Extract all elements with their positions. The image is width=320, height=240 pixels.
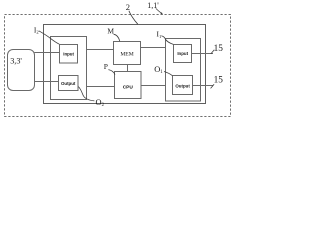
svg-text:O1: O1 — [154, 65, 163, 75]
leader P to CPU corner — [108, 70, 115, 75]
svg-text:P: P — [104, 62, 108, 71]
svg-text:Input: Input — [63, 51, 74, 56]
leader I2 to left input corner — [39, 31, 60, 44]
right input unit — [174, 45, 192, 63]
wire 3,3' to left output — [35, 81, 59, 83]
left I/O group rect — [51, 37, 87, 100]
wire CPU to right group — [141, 85, 166, 87]
external device 3,3' rounded box — [8, 50, 35, 91]
svg-text:CPU: CPU — [123, 85, 134, 91]
svg-text:I2: I2 — [34, 25, 39, 34]
connector MEM to CPU — [127, 65, 129, 72]
processor box CPU — [115, 72, 142, 99]
device boundary box 2 — [44, 25, 206, 104]
leader for 2 — [129, 11, 138, 24]
svg-text:3,3': 3,3' — [10, 56, 22, 65]
dashed system enclosure 1,1' — [5, 15, 231, 117]
memory box MEM — [114, 42, 141, 65]
left input unit — [60, 45, 78, 64]
wire left group to CPU — [87, 86, 115, 88]
svg-text:Output: Output — [61, 81, 76, 86]
leader arrow 1,1' — [156, 8, 162, 13]
svg-text:1,1': 1,1' — [147, 1, 159, 10]
leader O2 from left output — [78, 87, 94, 101]
svg-text:MEM: MEM — [120, 51, 133, 57]
wire MEM to right group — [141, 47, 166, 49]
port tick 15 bottom — [211, 84, 215, 88]
svg-text:15: 15 — [214, 75, 224, 85]
svg-text:2: 2 — [126, 2, 130, 12]
port tick 15 top — [211, 50, 215, 54]
svg-text:15: 15 — [214, 44, 224, 54]
leader I1 to right input corner — [161, 36, 173, 45]
right I/O group rect — [166, 39, 201, 102]
leader O1 to right output corner — [164, 72, 172, 76]
left output unit — [59, 76, 79, 91]
svg-text:M: M — [107, 26, 114, 35]
wire left group to MEM — [87, 49, 114, 51]
right output unit — [173, 76, 193, 95]
wire right input to port 15 — [192, 53, 214, 55]
svg-text:O2: O2 — [96, 98, 105, 108]
wire right output to port 15 — [193, 85, 214, 87]
svg-text:Output: Output — [175, 84, 190, 89]
leader M to MEM top — [114, 34, 120, 41]
svg-text:I1: I1 — [157, 30, 162, 39]
svg-text:Input: Input — [177, 51, 188, 56]
wire 3,3' to left input — [35, 52, 60, 54]
